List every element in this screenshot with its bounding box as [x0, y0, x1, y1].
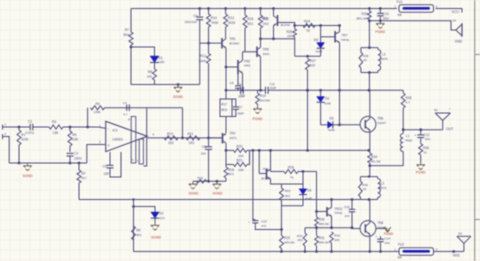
- ground SGND right: [216, 181, 218, 184]
- svg-text:4R7K: 4R7K: [380, 57, 388, 61]
- resistor R31: [315, 236, 319, 246]
- capacitor C7: [232, 99, 236, 107]
- svg-text:PGND: PGND: [384, 232, 394, 236]
- ground PGND top: [379, 21, 381, 24]
- svg-text:R13: R13: [228, 16, 234, 20]
- resistor R7: [130, 9, 132, 33]
- svg-text:L2: L2: [381, 181, 385, 185]
- svg-text:R19: R19: [260, 94, 266, 98]
- wire L2 network column bottom: [369, 166, 371, 177]
- svg-text:R21: R21: [237, 159, 243, 163]
- wire box bottom: [282, 205, 304, 207]
- resistor R21: [225, 150, 227, 164]
- antenna/chassis GND top right: [456, 24, 462, 30]
- capacitor C13: [379, 7, 382, 10]
- wire TR6 base: [340, 124, 361, 126]
- inductor L1: [400, 134, 403, 152]
- svg-text:SGND: SGND: [173, 95, 184, 99]
- resistor R26: [284, 170, 298, 174]
- svg-text:10R: 10R: [238, 154, 244, 158]
- resistor R33: [368, 7, 371, 10]
- resistor R23: [282, 183, 304, 185]
- svg-text:R9: R9: [136, 229, 140, 233]
- svg-text:C13: C13: [383, 12, 389, 16]
- resistor R24: [303, 24, 315, 28]
- resistor R1: [18, 126, 21, 129]
- svg-text:220: 220: [287, 34, 292, 38]
- svg-text:220R: 220R: [199, 59, 207, 63]
- svg-text:4R7K: 4R7K: [379, 186, 387, 190]
- wire bus to C15 branch: [252, 149, 255, 152]
- svg-text:R17: R17: [221, 102, 227, 106]
- inductor L3: [378, 50, 381, 71]
- wire TR4 collector to R26: [270, 169, 272, 171]
- wire R7 junction down: [130, 47, 132, 85]
- svg-text:OUT: OUT: [446, 127, 454, 131]
- svg-text:+: +: [375, 235, 377, 239]
- svg-text:FU1: FU1: [397, 0, 403, 4]
- ground SGND bias: [177, 83, 180, 86]
- svg-text:75: 75: [290, 175, 294, 179]
- transistor TR7 TIP41 driver: [321, 36, 336, 38]
- svg-text:10P: 10P: [104, 172, 110, 176]
- svg-text:C1: C1: [28, 119, 32, 123]
- transistor TR1 BC550: [221, 38, 223, 49]
- svg-text:100U: 100U: [74, 156, 82, 160]
- wire bias rail y84.5: [131, 84, 200, 86]
- wire R27 column to y150 bus: [307, 90, 309, 150]
- svg-text:R34: R34: [371, 155, 377, 159]
- wire output bus y129.7: [403, 129, 443, 131]
- svg-text:TR5: TR5: [263, 47, 269, 51]
- svg-text:4A: 4A: [398, 256, 403, 260]
- resistor R17 box: [225, 90, 227, 99]
- resistor R13: [224, 7, 227, 10]
- capacitor C18: [351, 198, 354, 201]
- svg-text:4148: 4148: [324, 101, 331, 105]
- antenna E2 bottom right: [463, 243, 465, 251]
- wire TR10 base feed: [317, 172, 328, 212]
- svg-text:TIP41: TIP41: [341, 38, 350, 42]
- svg-text:104: 104: [344, 214, 349, 218]
- svg-text:10R: 10R: [238, 168, 244, 172]
- svg-text:R4: R4: [96, 102, 100, 106]
- wire power-gnd sub-rail: [369, 21, 455, 30]
- svg-text:+: +: [414, 133, 416, 137]
- resistor R34: [368, 153, 372, 163]
- svg-text:E1: E1: [434, 108, 438, 112]
- svg-text:R7: R7: [125, 28, 129, 32]
- svg-text:R28: R28: [406, 96, 412, 100]
- resistor R22: [259, 7, 262, 10]
- svg-text:R29: R29: [284, 236, 290, 240]
- transistor TR8 D1047 output: [360, 221, 376, 237]
- wire TR1 base feed: [200, 42, 222, 44]
- capacitor C6: [208, 138, 210, 147]
- capacitor C1: [29, 124, 31, 131]
- transistor TR3: [237, 60, 239, 74]
- svg-text:R33: R33: [361, 12, 367, 16]
- wire base bus y227.7: [305, 227, 352, 229]
- wire pin loop tail: [143, 108, 146, 166]
- svg-text:1K3: 1K3: [297, 238, 303, 242]
- svg-text:0R5.3W: 0R5.3W: [284, 241, 295, 245]
- svg-text:2A: 2A: [453, 19, 457, 23]
- diode D2: [134, 207, 156, 213]
- svg-text:13K: 13K: [53, 131, 60, 135]
- svg-text:SGND: SGND: [189, 191, 199, 195]
- diode D5: [321, 124, 328, 126]
- svg-text:0R1.3W: 0R1.3W: [356, 17, 367, 21]
- svg-text:TIP42: TIP42: [334, 211, 342, 215]
- svg-text:TR9: TR9: [261, 17, 267, 21]
- svg-text:C2: C2: [74, 151, 78, 155]
- svg-text:C4: C4: [123, 101, 127, 105]
- svg-text:PGND: PGND: [375, 30, 385, 34]
- svg-text:C8: C8: [230, 81, 234, 85]
- svg-text:LED: LED: [159, 60, 166, 64]
- svg-text:4K7: 4K7: [81, 176, 87, 180]
- svg-text:LM301: LM301: [113, 138, 123, 142]
- svg-text:TR10: TR10: [334, 207, 342, 211]
- wire y56.3: [295, 55, 321, 57]
- svg-text:C9: C9: [237, 83, 241, 87]
- wire y38.8: [261, 38, 295, 40]
- svg-text:5K3: 5K3: [221, 108, 227, 112]
- svg-text:VCC: VCC: [452, 10, 460, 14]
- resistor R10: [164, 136, 178, 140]
- svg-text:A970: A970: [230, 136, 237, 140]
- svg-text:SGND: SGND: [22, 174, 33, 178]
- svg-text:0R1.3W: 0R1.3W: [370, 159, 380, 163]
- inductor L2: [378, 179, 381, 198]
- svg-text:R12: R12: [200, 54, 206, 58]
- svg-text:IC1: IC1: [113, 129, 118, 133]
- diode D6: [320, 26, 322, 43]
- diode D1 LED: [150, 56, 159, 62]
- svg-text:5K6: 5K6: [123, 33, 129, 37]
- svg-text:C4: C4: [193, 14, 197, 18]
- svg-text:100P: 100P: [238, 95, 245, 99]
- svg-text:4148: 4148: [328, 128, 335, 132]
- antenna OUT: [442, 121, 444, 130]
- ground SGND D2: [154, 223, 156, 226]
- op-amp IC1 LM301: [106, 121, 148, 151]
- svg-text:R11: R11: [188, 132, 194, 136]
- svg-text:104: 104: [385, 241, 390, 245]
- svg-text:1K2: 1K2: [189, 141, 195, 145]
- svg-text:R10: R10: [167, 132, 173, 136]
- svg-text:C7: C7: [238, 105, 242, 109]
- wire TR8 base: [352, 228, 360, 230]
- transistor TR2 A970: [225, 117, 227, 134]
- ground PGND R19: [257, 106, 259, 109]
- wire signal ground bus y181.3: [193, 180, 226, 182]
- svg-text:L1: L1: [406, 134, 410, 138]
- wire VEE bottom rail: [134, 251, 400, 253]
- svg-text:7K50: 7K50: [211, 21, 219, 25]
- resistor R20: [225, 149, 228, 152]
- ground PGND Zobel: [420, 162, 422, 165]
- svg-text:L3: L3: [382, 52, 386, 56]
- resistor R39 damping bottom: [360, 176, 377, 178]
- wire TR5 base: [243, 51, 258, 53]
- transistor TR6 D1047 output: [360, 116, 376, 132]
- svg-text:C6: C6: [202, 145, 206, 149]
- wire L3 network column: [368, 21, 370, 48]
- wire feedback bus y150: [250, 149, 369, 151]
- svg-text:0.47U: 0.47U: [26, 131, 35, 135]
- svg-text:TR4: TR4: [263, 167, 269, 171]
- svg-text:R14: R14: [211, 16, 217, 20]
- svg-text:E2: E2: [458, 231, 462, 235]
- capacitor C4: [198, 7, 201, 10]
- ground PGND TR8: [376, 228, 388, 230]
- svg-text:1K2.5W: 1K2.5W: [260, 98, 270, 102]
- resistor R5: [69, 127, 71, 131]
- capacitor C5: [109, 152, 111, 165]
- capacitor C8: [237, 74, 239, 85]
- connector input pin 1 wire: [3, 126, 20, 128]
- wire to op-amp non-inverting input: [87, 145, 106, 164]
- svg-text:R24: R24: [304, 19, 310, 23]
- svg-text:910: 910: [310, 64, 316, 68]
- capacitor C3 compensation: [105, 107, 183, 109]
- resistor R25: [294, 26, 296, 30]
- svg-text:3401: 3401: [263, 52, 270, 56]
- op-amp pin loops 8 and 1: [131, 117, 136, 164]
- resistor R18: [197, 180, 207, 184]
- capacitor C14: [380, 242, 382, 252]
- svg-text:TR7: TR7: [342, 34, 348, 38]
- resistor R4: [91, 106, 105, 110]
- svg-text:GND: GND: [455, 39, 463, 43]
- svg-text:9K1: 9K1: [136, 233, 142, 237]
- svg-text:VEE: VEE: [453, 254, 461, 258]
- svg-text:100U/16V: 100U/16V: [184, 20, 197, 24]
- ground SGND left: [192, 181, 194, 184]
- svg-text:PGND: PGND: [416, 170, 426, 174]
- svg-text:10: 10: [424, 151, 428, 155]
- svg-text:SGND: SGND: [151, 236, 162, 240]
- fuse FU2: [399, 248, 434, 256]
- svg-text:SGND: SGND: [213, 191, 223, 195]
- svg-text:R8: R8: [148, 70, 152, 74]
- svg-text:10U: 10U: [383, 17, 390, 21]
- svg-text:5K3: 5K3: [247, 22, 253, 26]
- svg-text:TR6: TR6: [377, 116, 383, 120]
- svg-text:R16: R16: [228, 168, 234, 172]
- svg-text:2K00: 2K00: [228, 21, 236, 25]
- svg-text:472: 472: [261, 224, 266, 228]
- transistor TR4 BC556: [258, 150, 260, 173]
- resistor R9: [132, 226, 136, 240]
- svg-text:220: 220: [147, 75, 152, 79]
- wire TR6 emitter stub: [369, 130, 371, 150]
- svg-text:D1047: D1047: [377, 121, 386, 125]
- svg-text:4148: 4148: [316, 50, 323, 54]
- resistor R12: [207, 54, 211, 64]
- svg-text:D3: D3: [325, 97, 329, 101]
- capacitor C2: [67, 152, 74, 154]
- svg-text:R26: R26: [288, 165, 294, 169]
- svg-text:R2: R2: [81, 172, 85, 176]
- wire TR9 base to bias bus: [278, 23, 295, 26]
- svg-text:D6: D6: [314, 38, 318, 42]
- resistor R32: [330, 232, 334, 243]
- svg-text:5K3: 5K3: [228, 172, 234, 176]
- wire feedback R4 branch: [87, 108, 89, 127]
- resistor R38 damping top: [361, 47, 378, 49]
- svg-text:2K2: 2K2: [285, 194, 291, 198]
- wire VCC top rail: [131, 8, 397, 10]
- svg-text:10: 10: [363, 58, 367, 62]
- svg-text:13K: 13K: [72, 138, 79, 142]
- wire TR1 emitter to TR3 base: [225, 66, 228, 69]
- svg-text:R36: R36: [423, 146, 429, 150]
- capacitor C9: [240, 87, 242, 94]
- wire TR6 collector: [369, 90, 371, 118]
- wire R3 to op-amp inverting input: [63, 126, 98, 128]
- svg-text:3401: 3401: [244, 64, 251, 68]
- capacitor C12: [420, 130, 422, 135]
- svg-text:75: 75: [306, 29, 310, 33]
- wire R9 column: [133, 200, 135, 252]
- resistor R19: [257, 90, 259, 93]
- svg-text:R23: R23: [285, 189, 291, 193]
- svg-text:BC546: BC546: [281, 23, 291, 27]
- wire feedback line y199.5: [79, 199, 360, 201]
- svg-text:TR8: TR8: [377, 221, 383, 225]
- capacitor C11: [265, 87, 267, 94]
- svg-text:C18: C18: [344, 205, 350, 209]
- svg-text:220: 220: [334, 238, 339, 242]
- resistor R8: [154, 63, 156, 70]
- fuse FU1: [399, 5, 434, 13]
- transistor TR9 BC546: [277, 15, 279, 26]
- svg-text:R5: R5: [72, 133, 76, 137]
- resistor R37: [304, 228, 306, 233]
- capacitor C15: [252, 220, 258, 222]
- svg-text:R20: R20: [237, 144, 243, 148]
- wire fuse FU1 to VCC label: [436, 9, 463, 13]
- wire input ground rail: [9, 162, 87, 164]
- svg-text:BC550: BC550: [230, 42, 240, 46]
- svg-text:R18: R18: [198, 176, 204, 180]
- resistor R36: [419, 144, 423, 156]
- svg-text:D2: D2: [160, 212, 164, 216]
- resistor R11: [186, 136, 200, 140]
- svg-text:C5: C5: [103, 165, 107, 169]
- svg-text:4A: 4A: [398, 13, 403, 17]
- svg-text:R15: R15: [247, 17, 253, 21]
- resistor R29: [281, 206, 283, 230]
- svg-text:BC556: BC556: [262, 177, 271, 181]
- svg-text:7R2K: 7R2K: [405, 139, 413, 143]
- resistor R2: [78, 162, 81, 165]
- resistor R3: [49, 125, 63, 129]
- svg-text:1K0: 1K0: [263, 22, 269, 26]
- svg-text:R3: R3: [52, 120, 56, 124]
- wire bias bus y25.5: [295, 25, 339, 27]
- wire compensation to output junction: [182, 108, 184, 138]
- svg-text:4.7: 4.7: [406, 100, 411, 104]
- svg-text:12V: 12V: [160, 216, 165, 220]
- diode D4: [302, 172, 304, 185]
- svg-text:10: 10: [363, 187, 367, 191]
- wire VAS bias bus y90.3: [226, 89, 240, 91]
- svg-text:C15: C15: [261, 219, 267, 223]
- svg-text:FU2: FU2: [398, 243, 404, 247]
- svg-text:R27: R27: [310, 59, 316, 63]
- svg-text:102: 102: [201, 152, 206, 156]
- svg-text:PGND: PGND: [252, 117, 263, 121]
- svg-text:0R5.3W: 0R5.3W: [319, 240, 329, 244]
- svg-text:10U: 10U: [425, 137, 431, 141]
- wire op-amp output: [147, 137, 222, 139]
- svg-text:150P: 150P: [237, 112, 244, 116]
- svg-text:D1: D1: [159, 56, 163, 60]
- svg-text:100K: 100K: [94, 110, 102, 114]
- svg-text:TR1: TR1: [230, 37, 236, 41]
- ground SGND input: [27, 163, 29, 166]
- svg-text:1K2: 1K2: [168, 141, 174, 145]
- transistor TR5: [256, 47, 258, 58]
- svg-text:150P: 150P: [270, 86, 277, 90]
- svg-text:110K: 110K: [21, 138, 29, 142]
- svg-text:D5: D5: [330, 117, 334, 121]
- diode D3: [320, 90, 322, 96]
- resistor R14: [207, 7, 210, 10]
- resistor R15: [244, 7, 247, 10]
- resistor R28: [402, 90, 404, 93]
- svg-text:0R5.3W: 0R5.3W: [319, 222, 329, 226]
- wire L3 to collector bus: [368, 73, 370, 91]
- transistor TR10 TIP42: [326, 207, 328, 217]
- resistor R27: [306, 59, 310, 71]
- connector input pin 2 wire: [3, 137, 10, 164]
- svg-text:4.7: 4.7: [123, 112, 128, 116]
- resistor R30: [315, 210, 318, 213]
- svg-text:D4: D4: [307, 189, 311, 193]
- wire TR7 emitter column to base node: [339, 90, 341, 125]
- wire to diode D1: [131, 47, 155, 56]
- resistor R16: [224, 167, 228, 178]
